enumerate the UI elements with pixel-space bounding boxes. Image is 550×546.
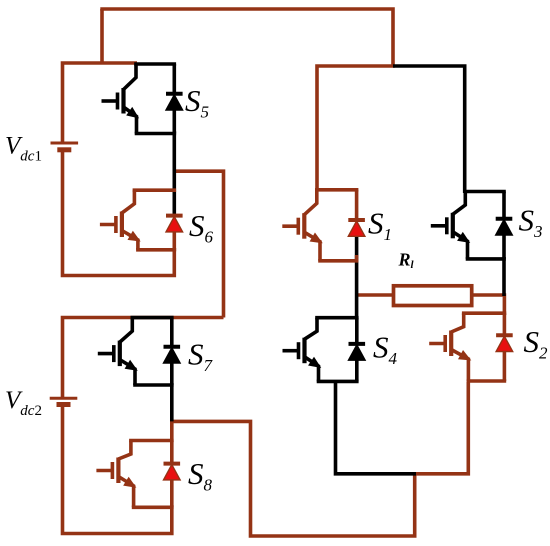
svg-text:S7: S7 [188,337,214,376]
svg-text:Vdc2: Vdc2 [5,387,42,419]
svg-text:S5: S5 [185,83,209,122]
svg-text:S3: S3 [519,203,543,242]
svg-text:Vdc1: Vdc1 [5,133,42,165]
svg-text:S1: S1 [368,206,392,245]
svg-text:S8: S8 [188,456,213,495]
svg-text:S4: S4 [373,330,398,369]
svg-text:S6: S6 [189,208,214,247]
svg-text:S2: S2 [524,324,549,363]
svg-text:Rl: Rl [398,250,415,272]
